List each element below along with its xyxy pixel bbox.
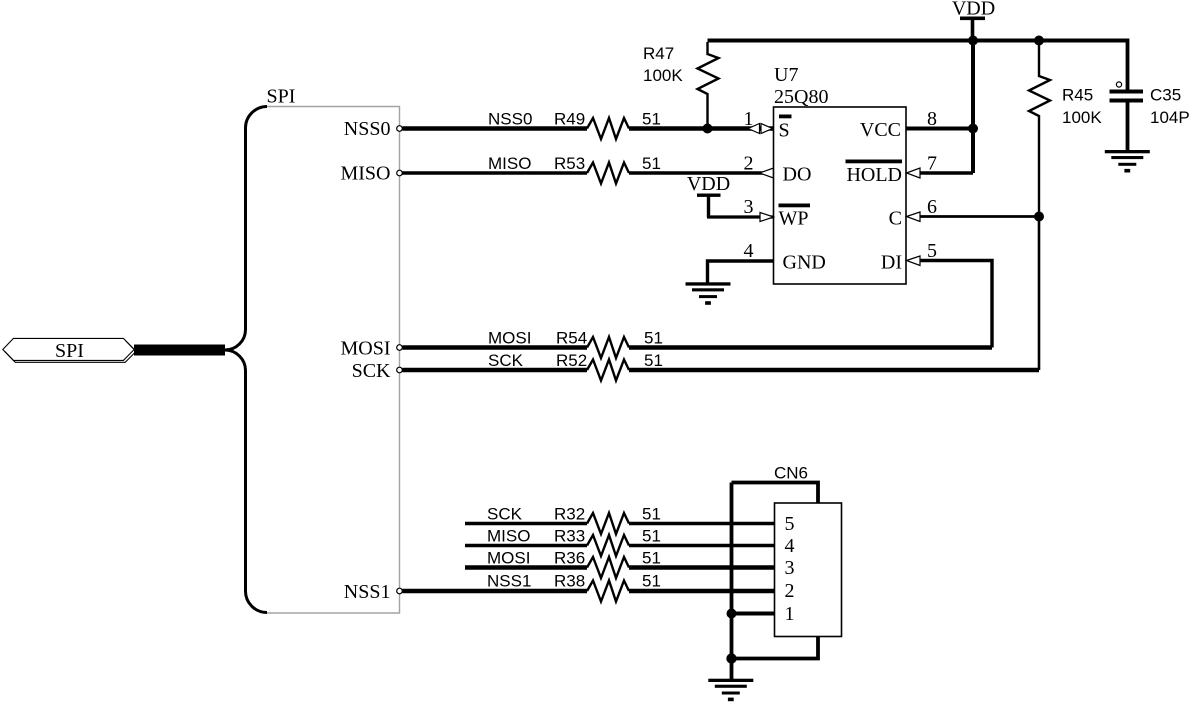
wire R45 to SCK [1038,217,1041,371]
svg-text:MISO: MISO [487,527,530,546]
wire GND stub [708,261,774,283]
wire VCC [906,127,973,131]
svg-text:2: 2 [744,153,754,175]
svg-text:51: 51 [644,351,663,370]
svg-text:R36: R36 [554,549,585,568]
svg-text:R53: R53 [554,154,585,173]
power VDD top [952,0,995,41]
junction C/R45 [1034,212,1044,222]
junction CN6 ground [726,653,736,663]
wire CN6 left vertical [730,483,734,659]
svg-text:NSS0: NSS0 [344,118,391,140]
svg-text:WP: WP [779,208,809,230]
port pin NSS1 [344,581,403,603]
resistor R38 [554,572,661,602]
junction NSS0/R47 [703,124,713,134]
wire DI [920,261,993,348]
wire SCK mid [403,368,1040,372]
wire WP stub [707,215,774,218]
bus brace [225,107,267,613]
wire MISO CN6 [465,544,775,547]
sheet port box SPI [267,107,400,614]
resistor R33 [554,527,661,557]
wire NSS0 [403,126,774,131]
ground CN6 [708,679,753,702]
svg-text:GND: GND [783,252,826,274]
svg-text:MOSI: MOSI [488,329,531,348]
svg-text:R49: R49 [554,110,585,129]
connector SPI [3,338,136,362]
svg-text:51: 51 [642,505,661,524]
wire VDD rail [708,39,1128,43]
svg-text:R38: R38 [554,572,585,591]
wire MOSI CN6 [465,565,775,570]
svg-text:NSS0: NSS0 [488,110,532,129]
svg-text:VCC: VCC [860,119,901,141]
svg-text:MISO: MISO [488,154,531,173]
svg-text:U7: U7 [774,64,798,86]
pin 6 arrow [907,196,938,222]
wire SCK CN6 [465,522,775,525]
svg-text:S: S [779,120,790,142]
wire C [920,215,1040,218]
svg-text:R47: R47 [643,44,674,63]
svg-text:104P: 104P [1150,108,1190,127]
svg-text:DO: DO [783,164,812,186]
junction rail/R45 [1034,36,1044,46]
resistor R53 [554,154,661,184]
wire HOLD [920,171,974,175]
svg-text:R52: R52 [556,351,587,370]
capacitor C35 [1110,39,1190,151]
pin 7 arrow [907,153,938,179]
svg-text:3: 3 [785,557,795,579]
svg-text:C: C [889,208,902,230]
wire CN6 bottom [732,637,819,659]
svg-text:4: 4 [744,240,754,262]
svg-text:MOSI: MOSI [487,549,530,568]
svg-text:6: 6 [927,196,937,218]
svg-text:R45: R45 [1062,86,1093,105]
svg-text:NSS1: NSS1 [487,572,531,591]
wire CN6 pin1 [732,612,775,616]
junction VCC [968,124,978,134]
svg-text:R33: R33 [554,527,585,546]
pin 2 arrow [744,153,774,179]
pin 3 arrow [744,196,774,222]
svg-text:R54: R54 [556,329,587,348]
wire CN6 top [732,483,819,504]
svg-text:1: 1 [744,108,754,130]
svg-text:51: 51 [642,154,661,173]
svg-text:HOLD: HOLD [846,164,902,186]
svg-text:SPI: SPI [55,340,84,362]
svg-text:CN6: CN6 [774,464,808,483]
resistor R49 [554,110,661,140]
pin numbers CN6 [785,513,795,625]
resistor R47 [643,42,719,126]
pin 5 arrow [907,240,938,266]
svg-text:5: 5 [785,513,795,535]
connector CN6 box [775,503,842,637]
svg-text:NSS1: NSS1 [344,581,391,603]
resistor R54 [556,329,663,359]
resistor R52 [556,351,663,381]
svg-text:51: 51 [642,527,661,546]
port pin MISO [340,163,402,185]
svg-text:MOSI: MOSI [340,338,390,360]
resistor R36 [554,549,661,579]
pin 1 arrow [744,108,773,134]
bus wire SPI [134,345,225,356]
port pin SCK [352,360,403,382]
wire VDD drop [971,41,975,174]
ground U7 pin4 [686,282,731,305]
svg-text:1: 1 [785,603,795,625]
wire NSS1 [403,589,775,594]
resistor R32 [554,505,661,535]
svg-text:2: 2 [785,580,795,602]
svg-text:SCK: SCK [352,360,391,382]
svg-text:100K: 100K [1062,108,1102,127]
ground C35 [1105,150,1150,173]
port pin MOSI [340,338,402,360]
resistor R45 [1029,42,1102,217]
svg-text:51: 51 [642,110,661,129]
svg-text:100K: 100K [643,66,683,85]
wire MISO [403,171,774,174]
svg-text:25Q80: 25Q80 [774,86,828,108]
junction rail/VCC [968,36,978,46]
svg-text:51: 51 [644,329,663,348]
svg-text:R32: R32 [554,505,585,524]
svg-text:4: 4 [785,535,795,557]
svg-text:51: 51 [642,572,661,591]
svg-text:7: 7 [927,153,937,175]
svg-text:5: 5 [927,240,937,262]
wire MOSI mid [403,345,993,349]
svg-text:SCK: SCK [487,505,523,524]
svg-text:C35: C35 [1150,86,1181,105]
svg-text:3: 3 [744,196,754,218]
svg-text:MISO: MISO [340,163,390,185]
svg-text:VDD: VDD [687,173,730,195]
svg-text:SPI: SPI [267,86,296,108]
svg-text:DI: DI [881,252,902,274]
junction CN6 pin1 [727,609,737,619]
power VDD at WP [687,173,730,217]
ic U7 [774,64,907,284]
wire CN6 ground stub [730,659,734,680]
svg-text:SCK: SCK [488,351,524,370]
port pin NSS0 [344,118,403,140]
svg-text:51: 51 [642,549,661,568]
svg-text:8: 8 [927,108,937,130]
